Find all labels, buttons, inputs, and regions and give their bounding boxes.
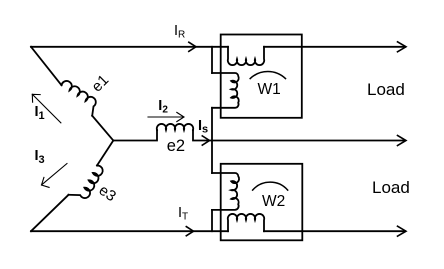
label W1 — [258, 81, 281, 99]
label I2 — [158, 98, 168, 116]
label Load top — [367, 80, 405, 100]
W2 voltage coil — [212, 173, 239, 210]
wire e2 to junction and S line right segment — [193, 130, 405, 141]
wattmeter W2 box — [221, 164, 303, 241]
label e2 — [167, 137, 185, 156]
label W2 — [262, 193, 285, 211]
wire lower-left diagonal from center node — [97, 141, 113, 166]
label e1 — [88, 72, 112, 96]
label Load bottom — [372, 178, 410, 198]
arrowhead IR on top line — [189, 42, 196, 51]
label I3 — [35, 148, 45, 166]
wire T-phase bottom line right segment — [264, 230, 405, 232]
label I1 — [35, 104, 45, 122]
wattmeter W1 box — [221, 35, 302, 118]
W1 current coil in R line — [228, 47, 264, 65]
wire R-phase top line left segment — [31, 46, 228, 48]
wire upper-left diagonal from top vertex — [31, 47, 62, 85]
arrow I3 direction — [42, 164, 68, 188]
source coil e1 — [62, 81, 96, 116]
wire W2 voltage coil bottom to T line — [211, 210, 213, 231]
W2 meter arc — [253, 182, 288, 190]
label IS — [198, 118, 208, 136]
wire T-phase bottom line left segment — [31, 230, 228, 232]
W2 current coil in T line — [228, 214, 264, 231]
arrowhead IT on bottom line — [186, 227, 193, 236]
wire from e1 to center node — [92, 116, 113, 141]
label IR — [174, 23, 185, 41]
wire from e3 to bottom vertex — [31, 195, 69, 231]
label e3 — [96, 182, 119, 205]
arrowhead top line end — [398, 42, 407, 52]
W1 voltage coil — [212, 73, 239, 108]
source coil e3 — [69, 165, 103, 198]
wire S-phase middle line from center node — [113, 130, 157, 141]
arrowhead middle line end — [398, 136, 407, 146]
wire junction column W1 bottom to W2 top through S node — [211, 108, 213, 173]
label IT — [178, 205, 188, 223]
arrow I1 direction — [32, 94, 61, 123]
arrowhead IS before junction — [202, 136, 209, 145]
source coil e2 — [157, 124, 193, 130]
wire W1 voltage coil top to R line — [211, 47, 213, 73]
wire R-phase top line right segment with load arrow — [264, 46, 405, 48]
W1 meter arc — [250, 72, 285, 79]
arrow I2 direction — [148, 112, 184, 121]
arrowhead bottom line end — [398, 226, 407, 236]
